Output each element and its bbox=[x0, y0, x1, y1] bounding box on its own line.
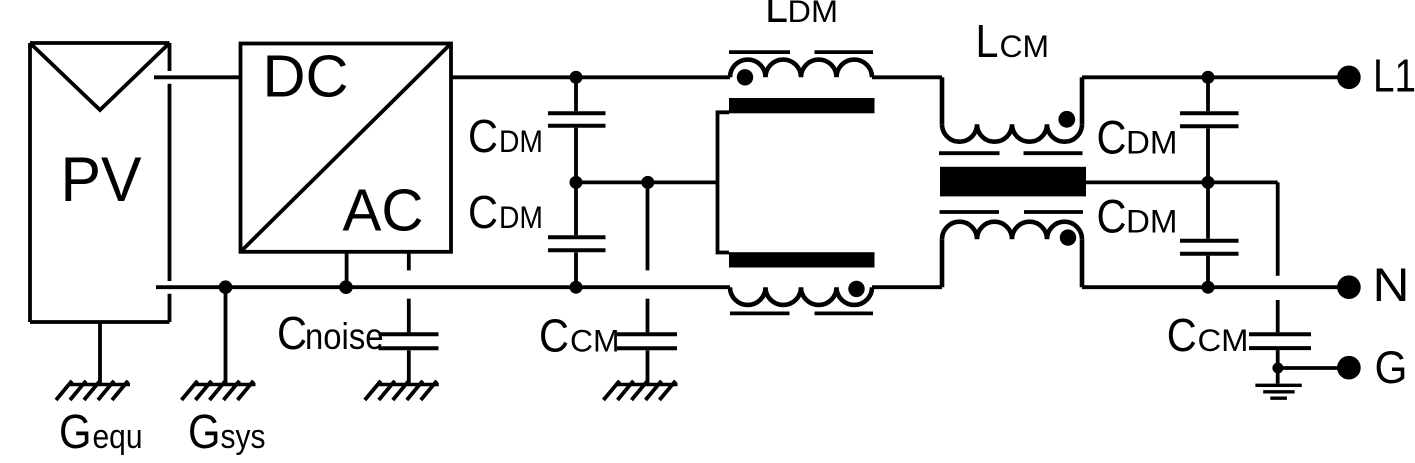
svg-text:DM: DM bbox=[499, 199, 543, 235]
wire inverter bottom stub left bbox=[345, 252, 349, 287]
polarity dot LCM bottom bbox=[1060, 229, 1076, 245]
wire PV frame to Gequ ground bbox=[98, 322, 102, 384]
LDM core box bbox=[718, 112, 730, 252]
svg-text:DM: DM bbox=[1126, 204, 1178, 240]
capacitor CDM upper right bbox=[1180, 77, 1239, 238]
svg-text:C: C bbox=[1097, 110, 1127, 163]
svg-text:G: G bbox=[59, 406, 92, 459]
terminal G bbox=[1337, 356, 1361, 380]
capacitor CCM right bbox=[1249, 182, 1349, 383]
node dot top rail at CDM left bbox=[570, 71, 583, 84]
svg-text:C: C bbox=[468, 186, 498, 238]
node dot middle rail at CCM left bbox=[641, 176, 654, 189]
capacitor CDM lower right bbox=[1180, 241, 1239, 288]
inverter diagonal bbox=[241, 44, 452, 252]
polarity dot LDM bottom bbox=[848, 281, 864, 297]
svg-text:G: G bbox=[1375, 342, 1408, 393]
node dot middle rail at CDM left bbox=[570, 176, 583, 189]
inverter U1 DC/AC box bbox=[241, 44, 452, 252]
inductor LDM top winding bbox=[730, 60, 872, 78]
PV triangle symbol bbox=[30, 43, 170, 110]
svg-text:C: C bbox=[468, 110, 498, 162]
wire middle rail right bbox=[1086, 180, 1278, 184]
svg-text:N: N bbox=[1373, 258, 1410, 311]
svg-text:C: C bbox=[1167, 309, 1197, 361]
node dot top rail at CDM right bbox=[1202, 71, 1215, 84]
terminal N bbox=[1337, 275, 1361, 299]
svg-text:L1: L1 bbox=[1373, 49, 1415, 101]
ground earth below CCM right bbox=[1255, 385, 1301, 398]
node dot bottom rail at CDM right bbox=[1202, 281, 1215, 294]
capacitor CDM lower left bbox=[548, 237, 606, 287]
LDM bottom core bar bbox=[729, 252, 875, 267]
capacitor CDM upper left bbox=[548, 77, 606, 235]
wire bottom rail LDM to LCM bbox=[872, 285, 942, 289]
wire LCM to L1 terminal bbox=[1082, 75, 1349, 79]
ground chassis Gequ bbox=[56, 381, 130, 400]
svg-text:AC: AC bbox=[343, 178, 424, 244]
wire inverter output to top rail bbox=[451, 75, 730, 79]
svg-text:CM: CM bbox=[570, 323, 620, 359]
capacitor Cnoise bbox=[379, 299, 439, 384]
polarity dot LDM top bbox=[737, 69, 753, 85]
svg-text:DM: DM bbox=[499, 123, 543, 159]
svg-text:C: C bbox=[277, 307, 307, 359]
LDM top core marks bbox=[729, 50, 873, 54]
wire PV plus to inverter bbox=[154, 75, 241, 79]
svg-text:DC: DC bbox=[263, 44, 349, 110]
inductor LCM top winding bbox=[942, 77, 1082, 141]
svg-text:noise: noise bbox=[305, 316, 384, 357]
wire LCM to N terminal bbox=[1082, 285, 1349, 289]
svg-text:C: C bbox=[1097, 190, 1127, 243]
svg-text:G: G bbox=[188, 406, 221, 459]
wire node to Gsys ground bbox=[224, 287, 228, 384]
node dot bottom rail at CDM left bbox=[570, 281, 583, 294]
capacitor CCM left bbox=[617, 182, 677, 384]
svg-text:CM: CM bbox=[1198, 322, 1249, 358]
svg-text:C: C bbox=[539, 310, 569, 362]
wire CCM node to G terminal bbox=[1278, 366, 1349, 370]
wire middle rail left bbox=[576, 180, 718, 184]
LCM core marks top bbox=[939, 151, 1083, 155]
wire top rail LDM to LCM bbox=[872, 75, 942, 79]
LDM bottom core marks bbox=[730, 311, 873, 315]
svg-text:sys: sys bbox=[221, 418, 266, 456]
svg-text:DM: DM bbox=[1126, 124, 1178, 160]
ground chassis below Cnoise bbox=[365, 381, 439, 400]
polarity dot LCM top bbox=[1058, 111, 1075, 128]
node dot bottom rail at Gsys bbox=[219, 280, 233, 294]
svg-text:CM: CM bbox=[1000, 28, 1050, 64]
terminal L1 bbox=[1337, 66, 1361, 90]
node dot bottom rail at inverter stub bbox=[339, 280, 353, 294]
wire bottom rail PV to LDM bbox=[156, 285, 730, 289]
LCM core bar bbox=[940, 167, 1086, 197]
svg-text:DM: DM bbox=[788, 0, 839, 29]
inductor LDM bottom winding bbox=[730, 287, 872, 305]
ground chassis below CCM left bbox=[604, 381, 678, 400]
ground chassis Gsys bbox=[182, 381, 256, 400]
node dot middle rail at CDM right bbox=[1202, 176, 1215, 189]
PV module PV box bbox=[30, 43, 170, 322]
LDM top core bar bbox=[729, 98, 875, 113]
svg-text:equ: equ bbox=[93, 418, 143, 456]
LCM core marks bottom bbox=[940, 210, 1084, 214]
node dot CCM right to ground bbox=[1272, 363, 1283, 374]
svg-text:L: L bbox=[976, 15, 999, 67]
svg-text:L: L bbox=[765, 0, 788, 32]
svg-text:PV: PV bbox=[61, 145, 142, 215]
wire inverter bottom stub right to Cnoise bbox=[407, 252, 411, 271]
inductor LCM bottom winding bbox=[942, 222, 1082, 288]
